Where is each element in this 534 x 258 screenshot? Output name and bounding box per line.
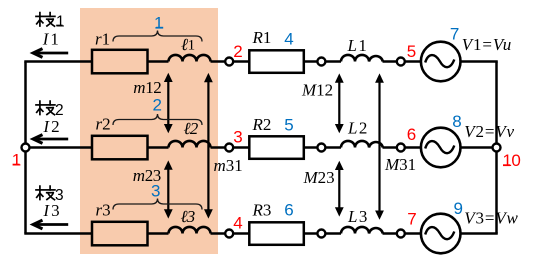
mutual coupling arrow m23 — [164, 160, 173, 218]
svg-text:10: 10 — [503, 151, 521, 170]
mutual coupling arrow m31 — [204, 73, 213, 219]
inductor l3 — [169, 227, 211, 234]
wire row2 r2 to l2 — [148, 146, 169, 149]
node 3 — [225, 144, 233, 152]
resistor R3 — [249, 222, 303, 245]
svg-text:L1: L1 — [347, 36, 369, 55]
svg-text:4: 4 — [233, 213, 242, 232]
svg-text:5: 5 — [284, 116, 293, 135]
svg-text:V2=Vv: V2=Vv — [464, 122, 515, 141]
wire row3 R3 to node — [305, 232, 318, 235]
svg-text:M31: M31 — [384, 155, 416, 174]
svg-text:4: 4 — [284, 30, 293, 49]
svg-text:2: 2 — [153, 95, 162, 114]
svg-text:m31: m31 — [214, 156, 243, 175]
inductor L3 — [341, 227, 383, 234]
svg-text:I1: I1 — [42, 30, 61, 49]
current arrow I2 — [33, 135, 68, 144]
svg-text:3: 3 — [233, 127, 242, 146]
wire row3 node4 to R3 — [233, 232, 249, 235]
wire row3 node7 to source V3 — [405, 232, 421, 235]
resistor r3 — [92, 222, 148, 246]
wire row3 r3 to l3 — [148, 232, 169, 235]
node 6 — [397, 144, 405, 152]
mutual coupling arrow M31 — [375, 73, 384, 219]
inductor L1 — [341, 55, 383, 62]
wire row2 source V2 to node10 — [461, 146, 493, 149]
svg-text:L3: L3 — [347, 207, 369, 226]
svg-text:ℓ3: ℓ3 — [181, 207, 195, 226]
svg-text:3: 3 — [151, 181, 160, 200]
resistor R2 — [249, 136, 303, 159]
svg-text:V1=Vu: V1=Vu — [462, 35, 512, 54]
svg-text:V3=Vw: V3=Vw — [464, 208, 518, 227]
wire row1 L1 to node5 — [383, 60, 397, 63]
wire row1 node2 to R1 — [233, 60, 249, 63]
wire row2 node to L2 — [325, 146, 341, 149]
inductor l2 — [169, 141, 211, 148]
current arrow I1 — [33, 49, 68, 58]
svg-text:R1: R1 — [252, 28, 272, 47]
svg-text:L2: L2 — [347, 118, 369, 137]
svg-text:I3: I3 — [42, 201, 61, 220]
svg-text:r1: r1 — [95, 30, 110, 49]
wire row1 node to L1 — [325, 60, 341, 63]
brace group 1 over r1 l1 — [113, 31, 202, 42]
mutual coupling arrow m12 — [164, 73, 173, 134]
wire row3 node to L3 — [325, 232, 341, 235]
svg-text:7: 7 — [450, 25, 459, 44]
svg-text:8: 8 — [452, 112, 461, 131]
current arrow I3 — [33, 220, 68, 229]
label branch3 kanji — [36, 186, 55, 200]
svg-text:7: 7 — [407, 210, 416, 229]
wire row2 R2 to node — [305, 146, 318, 149]
svg-text:5: 5 — [407, 42, 416, 61]
wire row2 l2 to node3 — [211, 146, 226, 149]
wire row3 l3 to node4 — [211, 232, 226, 235]
label branch1 kanji — [36, 13, 55, 27]
svg-text:ℓ2: ℓ2 — [184, 119, 199, 138]
wire row1 node5 to source V1 — [405, 60, 421, 63]
label branch2 kanji — [36, 101, 55, 115]
wire row2 left — [26, 146, 92, 149]
inductor L2 — [341, 141, 383, 148]
node between R2 and L2 — [317, 144, 325, 152]
wire row2 node6 to source V2 — [405, 146, 421, 149]
svg-text:m12: m12 — [133, 78, 161, 97]
wire left vertical bus — [24, 62, 27, 234]
svg-text:1: 1 — [154, 14, 163, 33]
orange highlight region — [80, 8, 218, 254]
brace group 2 over r2 l2 — [113, 114, 202, 125]
node 10 — [493, 144, 501, 152]
svg-text:R3: R3 — [252, 201, 272, 220]
svg-text:M12: M12 — [301, 80, 333, 99]
node 7 — [397, 230, 405, 238]
wire row2 L2 to node6 — [383, 146, 397, 149]
svg-text:1: 1 — [56, 13, 65, 30]
wire row1 R1 to node — [305, 60, 318, 63]
svg-text:6: 6 — [407, 125, 416, 144]
mutual coupling arrow M12 — [335, 73, 344, 133]
wire row1 left — [24, 60, 91, 63]
wire right vertical bus — [495, 62, 498, 234]
wire row2 node3 to R2 — [233, 146, 249, 149]
mutual coupling arrow M23 — [335, 161, 344, 217]
svg-text:r3: r3 — [96, 201, 111, 220]
brace group 3 over r3 l3 — [113, 199, 202, 210]
AC source U2 — [421, 128, 461, 168]
AC source U3 — [421, 214, 461, 254]
AC source U1 — [421, 42, 461, 82]
svg-text:9: 9 — [454, 199, 463, 218]
resistor r1 — [92, 50, 148, 74]
svg-text:6: 6 — [284, 201, 293, 220]
node 5 — [397, 58, 405, 66]
wire row3 left — [24, 232, 91, 235]
node 4 — [225, 230, 233, 238]
inductor l1 — [169, 55, 211, 62]
wire row1 l1 to node2 — [211, 60, 226, 63]
resistor R1 — [249, 50, 303, 73]
svg-text:r2: r2 — [96, 115, 111, 134]
svg-text:M23: M23 — [303, 168, 335, 187]
node between R1 and L1 — [317, 58, 325, 66]
svg-text:I2: I2 — [42, 117, 61, 136]
resistor r2 — [92, 136, 148, 160]
wire row1 r1 to l1 — [148, 60, 169, 63]
svg-text:1: 1 — [12, 151, 21, 170]
wire row1 source V1 to right bus — [461, 60, 498, 63]
svg-text:ℓ1: ℓ1 — [181, 35, 195, 54]
svg-text:R2: R2 — [252, 115, 272, 134]
node 2 — [225, 58, 233, 66]
svg-text:2: 2 — [233, 42, 242, 61]
wire row3 source V3 to right bus — [461, 232, 498, 235]
node 1 — [22, 144, 30, 152]
node between R3 and L3 — [317, 230, 325, 238]
wire row3 L3 to node7 — [383, 232, 397, 235]
